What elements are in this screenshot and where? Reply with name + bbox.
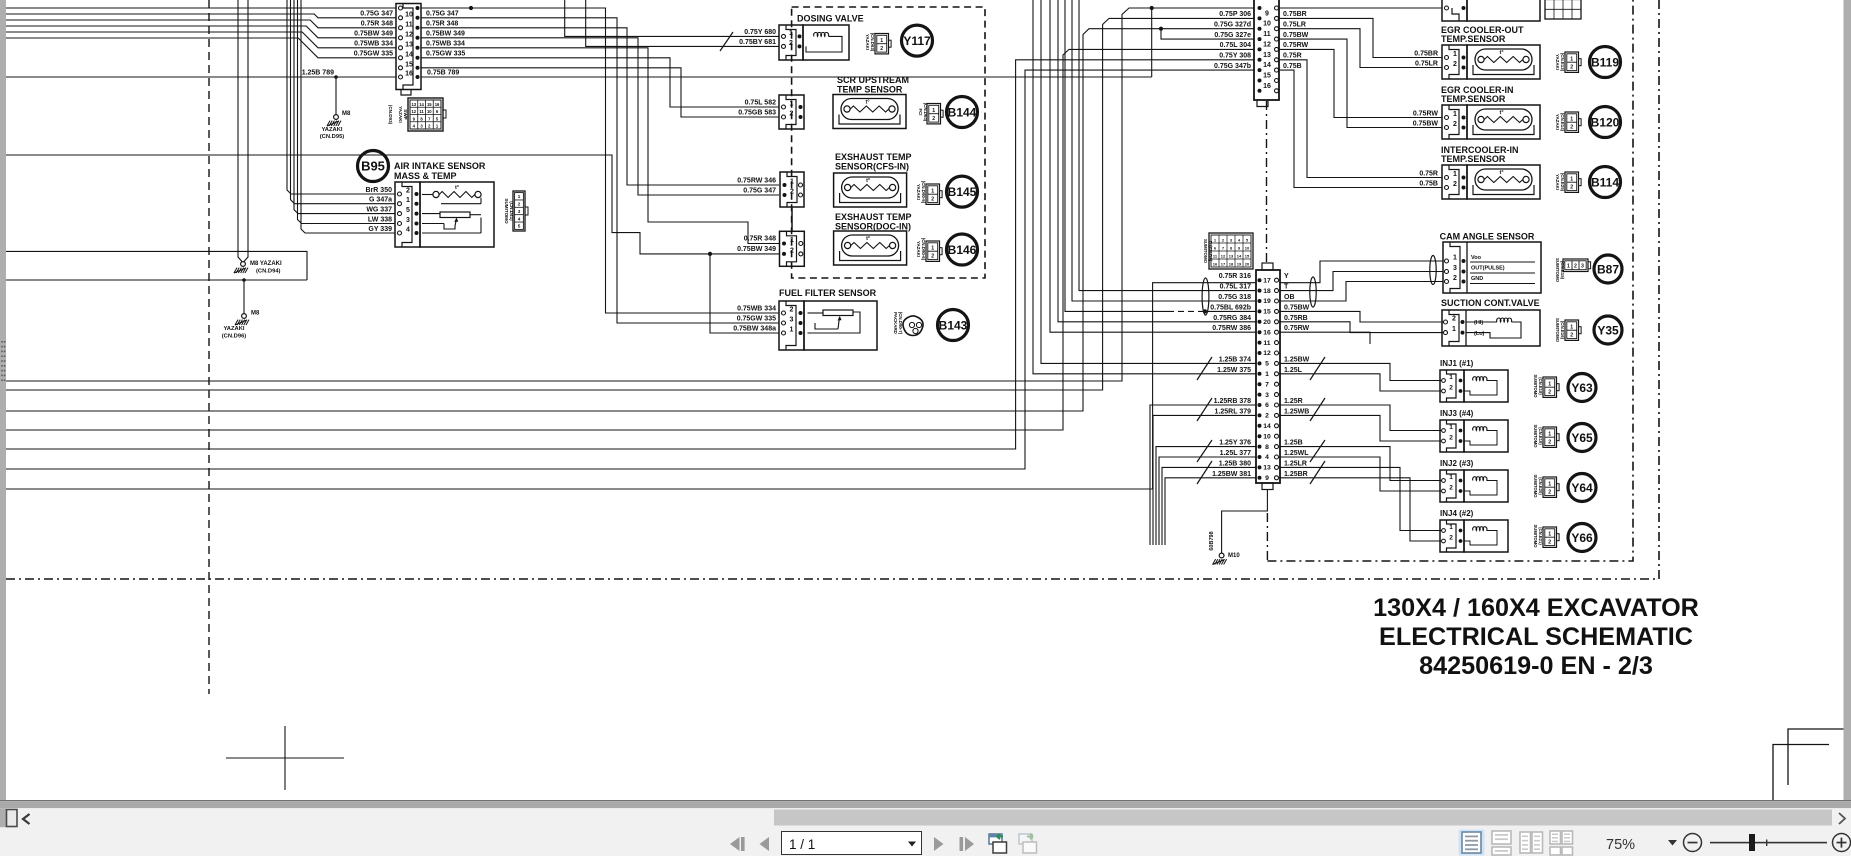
svg-text:2: 2: [406, 188, 410, 195]
mfr icon B114: [1565, 172, 1579, 192]
last page button: [960, 837, 964, 851]
ECU connector upper (pins 9-16): [1254, 0, 1279, 100]
wire M10 stem: [1222, 490, 1268, 554]
svg-text:0.75RW: 0.75RW: [1413, 111, 1439, 118]
svg-text:1: 1: [1548, 531, 1551, 537]
wire long 0.75Y 308: [6, 60, 1254, 449]
mfr icon B120: [1565, 112, 1579, 132]
component box cam angle sensor: [1443, 242, 1541, 293]
right page edge strip: [1844, 0, 1851, 801]
svg-text:1 / 1: 1 / 1: [789, 837, 815, 852]
mfr icon Y35: [1565, 320, 1579, 340]
svg-text:12: 12: [1263, 350, 1271, 357]
svg-text:(CN.D96): (CN.D96): [222, 334, 247, 340]
wire dosing feed 2: [586, 0, 779, 46]
wire nested feed to ECU pin row 4: [1058, 0, 1256, 322]
wire 0.75BW to suction pin2: [1281, 311, 1444, 322]
svg-text:19: 19: [1263, 298, 1271, 305]
svg-text:Voo: Voo: [1471, 255, 1482, 261]
wire 0.75RW right: [1281, 332, 1371, 344]
svg-text:0.75LR: 0.75LR: [1415, 61, 1438, 68]
slash mark pair right: [1310, 440, 1325, 462]
wire 0.75R 348 to B146: [421, 48, 780, 244]
wire left edge y251: [6, 251, 307, 280]
injector Y65: [1440, 420, 1464, 452]
svg-text:7: 7: [1265, 381, 1269, 388]
component box suction control valve: [1442, 310, 1540, 346]
wire left edge y280: [6, 279, 307, 281]
svg-text:2: 2: [790, 111, 794, 118]
component box dosing valve (solenoid): [803, 25, 849, 60]
wire left bus 5 to connector pin: [6, 32, 396, 48]
wire branch 0.75BW 348a to fuel filter: [710, 254, 779, 333]
component box B95 (mass &amp; temp element): [420, 182, 494, 247]
svg-text:1.25B 374: 1.25B 374: [1219, 356, 1251, 363]
circle Y66: [1568, 524, 1596, 552]
svg-text:2: 2: [1265, 413, 1269, 420]
svg-text:4: 4: [518, 216, 521, 221]
zoom slider thumb: [1749, 834, 1755, 851]
svg-text:4: 4: [1265, 454, 1269, 461]
svg-text:Y117: Y117: [903, 34, 931, 48]
svg-text:(CN.D41): (CN.D41): [509, 201, 514, 221]
svg-text:1: 1: [931, 245, 934, 251]
splitter grip dots: [1, 341, 3, 343]
svg-text:1.25RL 379: 1.25RL 379: [1215, 408, 1252, 415]
circle B95: [358, 151, 389, 182]
svg-text:18: 18: [1263, 288, 1271, 295]
svg-text:0.75WB 334: 0.75WB 334: [426, 41, 465, 48]
page box dropdown caret: [908, 842, 916, 847]
svg-text:2: 2: [1570, 65, 1573, 71]
svg-text:15: 15: [1245, 254, 1250, 259]
svg-text:(CN.E20): (CN.E20): [1538, 477, 1543, 495]
svg-text:EXSHAUST TEMP: EXSHAUST TEMP: [835, 152, 912, 162]
svg-text:0.75G 347: 0.75G 347: [360, 11, 393, 18]
junction dot 327d: [1159, 27, 1163, 31]
svg-text:130X4 / 160X4 EXCAVATOR: 130X4 / 160X4 EXCAVATOR: [1373, 594, 1699, 622]
sidebar page icon: [7, 810, 18, 827]
wire 0.75BW 349 run: [6, 155, 780, 254]
svg-text:B146: B146: [948, 243, 977, 257]
svg-text:0.75BY 681: 0.75BY 681: [739, 39, 776, 46]
svg-text:CAM ANGLE SENSOR: CAM ANGLE SENSOR: [1440, 232, 1535, 242]
svg-text:2: 2: [1449, 385, 1453, 392]
svg-text:1.25L 377: 1.25L 377: [1220, 450, 1252, 457]
ground M8 YAZAKI CN.D95: [334, 115, 339, 120]
svg-text:9: 9: [1265, 10, 1269, 17]
svg-text:0.75G 347: 0.75G 347: [426, 11, 459, 18]
svg-text:B143: B143: [939, 318, 968, 332]
sidebar expand chevron: [23, 814, 30, 824]
wire injector feed 5: [1281, 447, 1443, 481]
svg-text:2: 2: [1449, 535, 1453, 542]
mfr icon B143 (packard triangle): [903, 316, 923, 336]
svg-text:2: 2: [1453, 181, 1457, 188]
ground M10: [1219, 553, 1224, 558]
svg-text:(Lo): (Lo): [1474, 331, 1485, 337]
sidebar strip bottom stub: [0, 808, 6, 827]
dash-dot border outer: [6, 0, 1659, 579]
injector Y64: [1440, 470, 1464, 502]
svg-text:1: 1: [790, 179, 794, 186]
svg-text:t°: t°: [1499, 110, 1503, 116]
svg-text:t°: t°: [455, 185, 459, 191]
svg-text:0.75G 347b: 0.75G 347b: [1214, 63, 1251, 70]
svg-text:11: 11: [419, 109, 424, 114]
svg-text:10: 10: [1263, 433, 1271, 440]
svg-text:SWP: SWP: [403, 109, 408, 119]
zoom slider tick: [1766, 840, 1767, 847]
svg-text:0.75B: 0.75B: [1419, 181, 1438, 188]
svg-text:1: 1: [1453, 111, 1457, 118]
wire stem B145-B146: [791, 207, 793, 231]
svg-text:D (CN.D9): D (CN.D9): [1208, 241, 1213, 262]
svg-text:0.75BW 349: 0.75BW 349: [426, 31, 465, 38]
svg-text:3: 3: [518, 209, 521, 214]
wire long to ECU row0: [6, 8, 1254, 381]
slash mark pair: [1197, 461, 1212, 484]
ground M8 YAZAKI CN.D96: [242, 314, 247, 319]
svg-text:11: 11: [1263, 340, 1270, 347]
svg-text:1: 1: [790, 101, 794, 108]
svg-text:SUMITOMO: SUMITOMO: [1533, 425, 1538, 449]
svg-text:13: 13: [411, 102, 416, 107]
svg-text:YAZAKI: YAZAKI: [398, 106, 403, 123]
wire bundle feed to ECU pin row 17: [1159, 457, 1256, 545]
svg-text:1.25WL: 1.25WL: [1284, 450, 1309, 457]
wire nested feed to ECU pin row 8: [1041, 0, 1256, 363]
svg-text:M8: M8: [342, 111, 351, 117]
connector CN.D93 (pins 10-16): [396, 4, 421, 90]
circle Y63: [1568, 374, 1596, 402]
mfr icon Y63: [1543, 377, 1557, 397]
wire T to cam pin3: [1281, 272, 1444, 291]
svg-text:1: 1: [1548, 381, 1551, 387]
svg-text:16: 16: [435, 102, 440, 107]
wire EGR feed 2: [1279, 29, 1442, 68]
svg-text:13: 13: [1263, 52, 1271, 59]
svg-text:t°: t°: [865, 100, 869, 106]
dash-dot border inner right group: [1266, 101, 1268, 263]
corner mark bottom-right L2: [1773, 745, 1829, 801]
svg-text:Y63: Y63: [1571, 381, 1593, 395]
svg-text:1.25RB 378: 1.25RB 378: [1214, 398, 1251, 405]
previous page button: [760, 837, 770, 851]
svg-text:t°: t°: [1499, 50, 1503, 56]
wire nested feed to ECU pin row 9: [1033, 0, 1256, 374]
circle B114: [1590, 167, 1621, 198]
wire nested feed to ECU pin row 2: [1072, 0, 1256, 301]
zoom slider track: [1710, 842, 1827, 844]
mfr icon Y64: [1543, 477, 1557, 497]
svg-text:t°: t°: [866, 178, 870, 184]
separator band: [0, 801, 1851, 808]
svg-text:13: 13: [1229, 254, 1234, 259]
svg-text:16: 16: [1263, 83, 1271, 90]
svg-text:1: 1: [1570, 176, 1573, 182]
svg-text:17: 17: [1263, 277, 1271, 284]
pin-map table SUMITOMO (CN.D41): [513, 191, 525, 231]
svg-text:1: 1: [790, 237, 794, 244]
svg-text:0.75R 348: 0.75R 348: [426, 21, 458, 28]
wire injector feed 3: [1281, 405, 1443, 431]
wire nested feed to ECU pin row 5: [1050, 0, 1256, 332]
svg-text:1: 1: [931, 188, 934, 194]
svg-text:YAZAKI: YAZAKI: [321, 127, 342, 133]
svg-text:(CN.D63): (CN.D63): [870, 33, 875, 52]
svg-text:(CN.E13): (CN.E13): [1560, 53, 1565, 72]
svg-text:1: 1: [1570, 56, 1573, 62]
pin-map table SUMITOMO D (CN.D9): [1209, 233, 1253, 269]
svg-text:t°: t°: [866, 236, 870, 242]
svg-text:0.75BW: 0.75BW: [1284, 304, 1310, 311]
connector B114: [1442, 165, 1467, 199]
wire 0.75B 789 long run: [421, 76, 1152, 78]
svg-text:1.25W 375: 1.25W 375: [1217, 367, 1251, 374]
svg-text:1.25R: 1.25R: [1284, 398, 1303, 405]
layout icon two pages: [1520, 832, 1531, 853]
svg-text:1: 1: [1548, 431, 1551, 437]
svg-text:1: 1: [1570, 116, 1573, 122]
svg-text:(CN.E25): (CN.E25): [1560, 173, 1565, 192]
component box B120: [1467, 105, 1540, 139]
svg-text:TEMP.SENSOR: TEMP.SENSOR: [1441, 94, 1506, 104]
zoom in button: [1833, 834, 1851, 852]
svg-text:12: 12: [405, 31, 413, 38]
next page button: [934, 837, 944, 851]
circle B145: [947, 176, 978, 207]
svg-text:5: 5: [1265, 361, 1269, 368]
svg-text:BrR 350: BrR 350: [366, 187, 393, 194]
component box B143 (fuel filter sender): [804, 301, 877, 350]
svg-text:1.25B 380: 1.25B 380: [1219, 460, 1251, 467]
circle B146: [947, 234, 978, 265]
svg-text:14: 14: [1237, 254, 1242, 259]
circle B120: [1590, 107, 1621, 138]
mfr icon B144: [927, 104, 941, 124]
svg-text:3: 3: [1581, 263, 1584, 269]
svg-text:2: 2: [790, 307, 794, 314]
svg-text:5: 5: [406, 207, 410, 214]
svg-text:B120: B120: [1591, 115, 1620, 129]
wire long 0.75G 327d: [6, 29, 1254, 411]
svg-text:M8: M8: [251, 311, 260, 317]
svg-text:10: 10: [1263, 21, 1271, 28]
svg-text:11: 11: [1263, 31, 1271, 38]
svg-text:12: 12: [1221, 254, 1226, 259]
svg-text:20: 20: [1245, 262, 1250, 267]
svg-text:2: 2: [1452, 316, 1456, 323]
svg-text:16: 16: [405, 71, 413, 78]
wire B95 pin3: [422, 223, 444, 225]
svg-text:Y65: Y65: [1571, 431, 1593, 445]
svg-text:1: 1: [1449, 524, 1453, 531]
svg-text:3: 3: [406, 217, 410, 224]
svg-text:OB: OB: [1284, 294, 1295, 301]
svg-text:SUMITOMO: SUMITOMO: [1533, 525, 1538, 549]
wire bundle feed to ECU pin row 18: [1162, 467, 1256, 545]
wire B95 feed 5: [301, 0, 395, 233]
svg-text:10: 10: [427, 109, 432, 114]
svg-text:60B798: 60B798: [1209, 531, 1215, 550]
svg-text:OUT(PULSE): OUT(PULSE): [1471, 266, 1505, 272]
wire left bus 3 to connector pin: [6, 20, 396, 28]
wire dosing feed 1: [565, 0, 779, 36]
mfr icon B87: [1563, 259, 1588, 272]
svg-text:2: 2: [1574, 263, 1577, 269]
svg-text:15: 15: [1263, 73, 1271, 80]
connector B120: [1442, 105, 1467, 139]
svg-text:2: 2: [790, 247, 794, 254]
svg-text:19: 19: [1237, 262, 1242, 267]
svg-text:TEMP SENSOR: TEMP SENSOR: [837, 85, 903, 95]
wire long 0.75L 304: [6, 49, 1254, 430]
svg-text:FCI: FCI: [918, 108, 923, 115]
dash-dot border inner below connector: [1266, 513, 1268, 561]
svg-text:0.75R 316: 0.75R 316: [1219, 273, 1251, 280]
svg-text:SENSOR(DOC-IN): SENSOR(DOC-IN): [835, 222, 911, 232]
wire row0 to top block: [1279, 7, 1442, 9]
wire injector feed 8: [1281, 478, 1443, 541]
svg-text:SUCTION CONT.VALVE: SUCTION CONT.VALVE: [1441, 298, 1540, 308]
svg-text:INJ2 (#3): INJ2 (#3): [1440, 459, 1474, 468]
svg-text:0.75L 582: 0.75L 582: [745, 100, 777, 107]
svg-text:15: 15: [1263, 309, 1271, 316]
svg-text:SUMITOMO: SUMITOMO: [1203, 239, 1208, 264]
svg-text:1.25BR: 1.25BR: [1284, 471, 1308, 478]
svg-text:14: 14: [419, 102, 424, 107]
dash-dot border inner bottom: [1267, 0, 1633, 561]
svg-text:0.75Y 680: 0.75Y 680: [744, 29, 776, 36]
ground M8 YAZAKI CN.D94: [241, 262, 246, 267]
junction dot top bus: [469, 6, 473, 10]
svg-text:SCR UPSTREAM: SCR UPSTREAM: [837, 75, 909, 85]
svg-text:9: 9: [1265, 475, 1269, 482]
svg-text:YAZAKI: YAZAKI: [1555, 174, 1560, 190]
svg-text:MASS & TEMP: MASS & TEMP: [394, 171, 457, 181]
svg-text:1: 1: [1449, 474, 1453, 481]
wire EGR feed 4: [1279, 49, 1442, 117]
svg-text:0.75R: 0.75R: [1419, 171, 1438, 178]
svg-text:Y64: Y64: [1571, 481, 1593, 495]
svg-text:0.75B 789: 0.75B 789: [427, 70, 459, 77]
svg-text:0.75B: 0.75B: [1283, 63, 1302, 70]
slash mark pair right: [1310, 357, 1325, 380]
svg-text:(CN.D94): (CN.D94): [256, 269, 281, 275]
twisted pair ellipse at cam connector: [1430, 256, 1436, 285]
pin-map table YAZAKI SWP (CN.D93): [408, 98, 443, 131]
svg-text:14: 14: [1263, 62, 1271, 69]
wire stub 327e: [1161, 29, 1254, 39]
wire to ground CN.D94 a: [238, 0, 242, 262]
mfr icon B146: [926, 241, 940, 261]
svg-text:B87: B87: [1597, 262, 1619, 276]
wire injector feed 1: [1281, 363, 1443, 380]
injector Y63: [1440, 370, 1464, 402]
first page button: [730, 837, 740, 851]
svg-text:2: 2: [1570, 333, 1573, 339]
twisted pair ellipse lower ECU: [1202, 278, 1209, 315]
component box B119: [1467, 45, 1540, 79]
component box SCR temp sensor: [833, 95, 906, 129]
wire EGR feed 1: [1279, 18, 1442, 57]
wire left bus 4 to connector pin: [6, 26, 396, 38]
slash mark pair right: [1310, 398, 1325, 421]
wire stem CN.D96: [243, 280, 245, 314]
wire 1.25B 789: [6, 76, 396, 78]
svg-text:M8 YAZAKI: M8 YAZAKI: [250, 261, 282, 267]
svg-text:INJ3 (#4): INJ3 (#4): [1440, 409, 1474, 418]
page number box: [782, 832, 922, 855]
svg-text:PACKARD: PACKARD: [893, 312, 898, 334]
twisted pair ellipse cam feed: [1310, 277, 1316, 307]
wire left bus 1 to connector pin: [6, 7, 396, 9]
connector B145: [780, 172, 804, 207]
svg-text:2: 2: [1453, 275, 1457, 282]
svg-text:0.75RW 346: 0.75RW 346: [737, 178, 776, 185]
svg-text:Y66: Y66: [1571, 531, 1593, 545]
svg-text:1: 1: [1265, 371, 1269, 378]
svg-text:YAZAKI: YAZAKI: [865, 34, 870, 50]
circle B144: [947, 97, 978, 128]
wire stub row0 to 789: [1151, 8, 1153, 77]
svg-text:YAZAKI: YAZAKI: [916, 184, 921, 200]
svg-text:14: 14: [405, 51, 413, 58]
wire EGR feed 6: [1279, 70, 1442, 187]
svg-text:1: 1: [1453, 51, 1457, 58]
svg-text:(HI): (HI): [1474, 320, 1483, 326]
svg-text:Y35: Y35: [1597, 323, 1619, 337]
svg-text:0.75GW 335: 0.75GW 335: [354, 51, 393, 58]
dashed vertical page split x209: [208, 0, 210, 694]
svg-text:0.75P 306: 0.75P 306: [1219, 11, 1251, 18]
svg-text:0.75Y 308: 0.75Y 308: [1219, 53, 1251, 60]
ECU connector lower (20 pins): [1256, 270, 1280, 483]
svg-text:0.75RG 384: 0.75RG 384: [1213, 315, 1251, 322]
svg-text:0.75GB 583: 0.75GB 583: [738, 110, 776, 117]
svg-text:10: 10: [405, 11, 413, 18]
svg-text:1.25Y 376: 1.25Y 376: [1219, 440, 1251, 447]
slash mark pair: [1197, 440, 1212, 462]
svg-text:20: 20: [1263, 319, 1271, 326]
svg-text:0.75GW 335: 0.75GW 335: [426, 51, 465, 58]
svg-text:14: 14: [1263, 423, 1271, 430]
svg-text:0.75RB: 0.75RB: [1284, 315, 1308, 322]
svg-text:16: 16: [1263, 329, 1271, 336]
svg-text:16: 16: [1213, 262, 1218, 267]
svg-text:1: 1: [1452, 326, 1456, 333]
svg-text:EXSHAUST TEMP: EXSHAUST TEMP: [835, 212, 912, 222]
component box B146: [834, 231, 907, 265]
svg-text:2: 2: [789, 40, 793, 47]
wire bundle feed to ECU pin row 13: [1153, 415, 1256, 545]
toolbar background: [0, 808, 1851, 856]
wire distribution run 1: [421, 8, 779, 313]
svg-text:G 347a: G 347a: [369, 197, 392, 204]
mfr icon dosing valve: [875, 34, 889, 54]
mfr icon B145: [926, 184, 940, 204]
svg-text:2: 2: [1548, 490, 1551, 496]
svg-text:13: 13: [1263, 465, 1271, 472]
svg-text:1: 1: [518, 194, 521, 199]
svg-text:1: 1: [1570, 324, 1573, 330]
wire EGR feed 5: [1279, 60, 1442, 178]
svg-text:SENSOR(CFS-IN): SENSOR(CFS-IN): [835, 162, 909, 172]
svg-text:6: 6: [1265, 402, 1269, 409]
svg-text:SUMITOMO: SUMITOMO: [1555, 318, 1560, 343]
wire distribution run 2: [421, 18, 779, 323]
